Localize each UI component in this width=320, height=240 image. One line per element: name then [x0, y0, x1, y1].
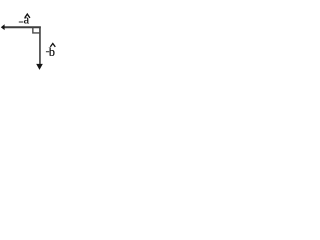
- vector -b arrowhead: [36, 64, 43, 70]
- label -b hat: [50, 44, 55, 47]
- vector -a shaft: [4, 26, 41, 28]
- right-angle marker: [33, 28, 40, 33]
- svg-text:b: b: [49, 45, 55, 59]
- label -a hat: [25, 14, 30, 18]
- label -a minus sign: [19, 21, 24, 23]
- label -b minus sign: [46, 51, 49, 53]
- vector -a arrowhead: [1, 24, 5, 30]
- vector -b shaft: [39, 27, 41, 65]
